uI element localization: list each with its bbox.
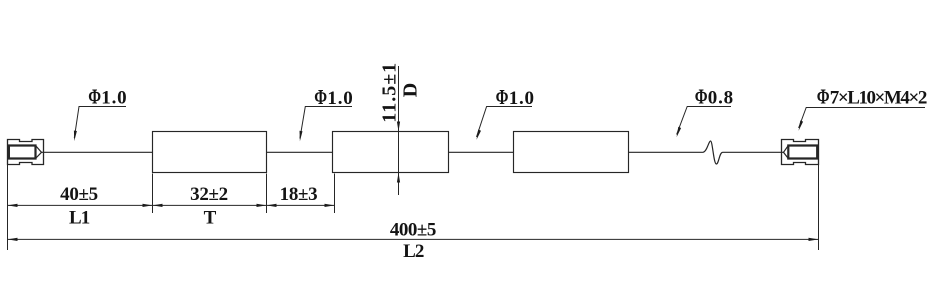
svg-text:1.0: 1.0 xyxy=(101,88,127,109)
vertical dimension line (11.5) xyxy=(398,66,400,195)
arrowhead leader 3 xyxy=(477,130,482,140)
sleeve (rect 3) xyxy=(514,132,629,173)
arrowhead leader 4 xyxy=(677,127,682,137)
svg-text:L2: L2 xyxy=(403,241,424,262)
extension line rect1 left xyxy=(152,174,154,214)
svg-text:Φ: Φ xyxy=(695,85,708,109)
svg-text:Φ: Φ xyxy=(314,86,327,110)
arrowhead dim1 far left (points left) xyxy=(8,204,18,207)
svg-text:32±2: 32±2 xyxy=(190,184,228,205)
svg-text:Φ: Φ xyxy=(496,86,509,110)
leader line for label phi7xL10xM4x2 xyxy=(799,108,925,129)
bead D (rect 2) xyxy=(333,132,449,173)
svg-text:7×L10×M4×2: 7×L10×M4×2 xyxy=(830,88,927,109)
arrowhead leader 5 xyxy=(799,120,804,130)
arrowhead leader 1 xyxy=(74,131,77,142)
extension line right end (x=818.5) xyxy=(818,165,820,250)
arrowhead dim1 at x266.5 left side (points right) xyxy=(257,204,267,207)
dimension line 400 (L2) xyxy=(8,238,819,240)
dimension line row 1 (40/32/18) xyxy=(8,204,335,206)
svg-text:Φ: Φ xyxy=(817,85,830,109)
svg-text:L1: L1 xyxy=(69,208,90,229)
connector P1 inner pin (thick) xyxy=(9,146,36,159)
svg-text:1.0: 1.0 xyxy=(509,88,535,109)
connector P2 (right terminal) outer body xyxy=(782,140,819,165)
arrowhead vertical dim top (points down) xyxy=(397,122,400,132)
wire segment 2 xyxy=(267,151,333,153)
wire segment 3 xyxy=(449,151,514,153)
leader line for label phi0.8 xyxy=(677,107,731,135)
svg-text:11.5±1: 11.5±1 xyxy=(379,62,401,123)
extension line rect2 left xyxy=(334,174,336,214)
arrowhead dim1 at x152.5 left side (points right) xyxy=(143,204,153,207)
arrowhead dim1 at x266.5 right side (points left) xyxy=(267,204,277,207)
extension line left end (x=7.5) xyxy=(7,165,9,250)
wire segment 4 xyxy=(629,151,704,153)
svg-text:D: D xyxy=(400,83,422,97)
connector P2 pin tip xyxy=(784,146,789,159)
connector P1 pin tip xyxy=(36,146,42,159)
svg-text:1.0: 1.0 xyxy=(327,88,353,109)
arrowhead dim2 right (points right) xyxy=(809,238,819,241)
svg-text:0.8: 0.8 xyxy=(708,87,734,108)
arrowhead dim1 far right (points right) xyxy=(325,204,335,207)
sleeve T (rect 1) xyxy=(153,132,267,173)
arrowhead dim1 at x152.5 right side (points left) xyxy=(153,204,163,207)
svg-text:T: T xyxy=(204,208,217,229)
svg-text:400±5: 400±5 xyxy=(390,220,436,241)
leader line for label phi1.0 #3 xyxy=(477,107,533,138)
wire segment 1 xyxy=(42,151,153,153)
wire segment 5 xyxy=(723,151,784,153)
arrowhead dim2 left (points left) xyxy=(8,238,18,241)
connector P1 (left terminal) outer body xyxy=(8,140,44,165)
extension line rect1 right xyxy=(266,174,268,214)
arrowhead vertical dim bottom (points up) xyxy=(397,173,400,183)
svg-text:40±5: 40±5 xyxy=(60,184,98,205)
leader line for label phi1.0 #2 xyxy=(300,107,352,139)
leader line for label phi1.0 #1 xyxy=(74,107,126,139)
connector P2 inner pin (thick) xyxy=(788,146,817,159)
svg-text:18±3: 18±3 xyxy=(280,184,318,205)
arrowhead leader 2 xyxy=(300,131,303,142)
svg-text:Φ: Φ xyxy=(88,85,101,109)
break symbol (wire squiggle) xyxy=(703,141,723,164)
